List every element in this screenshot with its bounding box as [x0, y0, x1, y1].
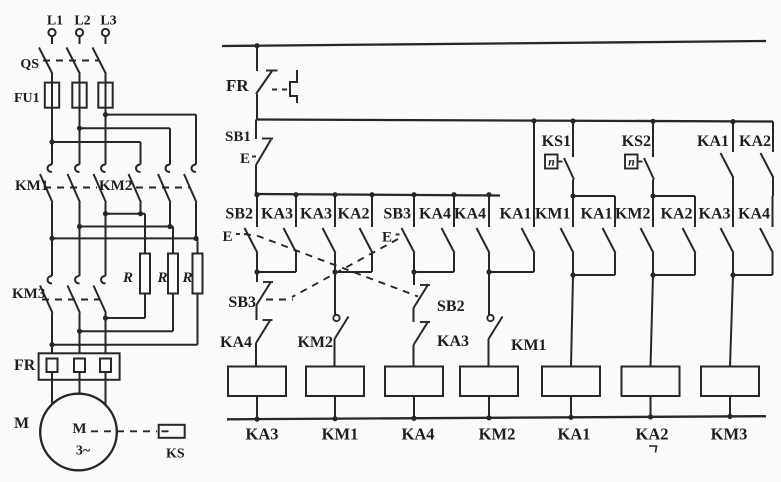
svg-text:KA4: KA4: [402, 425, 435, 444]
svg-text:SB3: SB3: [228, 294, 256, 311]
svg-text:M: M: [14, 415, 29, 432]
svg-text:KA3: KA3: [300, 206, 332, 223]
svg-text:KA4: KA4: [738, 206, 770, 223]
svg-text:E: E: [223, 229, 233, 245]
svg-text:KA1: KA1: [500, 206, 532, 223]
svg-text:KM2: KM2: [615, 206, 651, 223]
svg-text:KA4: KA4: [419, 206, 451, 223]
svg-text:FR: FR: [226, 76, 249, 95]
svg-text:KA4: KA4: [220, 334, 252, 351]
svg-text:KM1: KM1: [15, 178, 48, 194]
svg-text:FR: FR: [14, 357, 36, 374]
svg-text:SB1: SB1: [225, 129, 251, 145]
svg-text:SB2: SB2: [437, 298, 465, 315]
svg-text:KM2: KM2: [99, 178, 132, 194]
svg-text:KM1: KM1: [511, 337, 547, 354]
svg-text:E: E: [382, 230, 392, 246]
svg-text:KM3: KM3: [12, 286, 45, 302]
svg-text:M: M: [72, 421, 86, 437]
svg-text:QS: QS: [20, 57, 39, 72]
svg-text:KA2: KA2: [739, 133, 771, 150]
svg-text:KM3: KM3: [711, 425, 748, 444]
svg-text:KM1: KM1: [322, 425, 359, 444]
svg-text:3~: 3~: [76, 444, 91, 459]
svg-text:KA3: KA3: [699, 206, 731, 223]
svg-text:L3: L3: [100, 14, 116, 29]
svg-text:KS: KS: [166, 447, 185, 462]
svg-text:SB3: SB3: [383, 206, 411, 223]
svg-text:KM2: KM2: [479, 425, 516, 444]
svg-text:n: n: [628, 155, 635, 169]
svg-text:KA3: KA3: [246, 425, 279, 444]
svg-text:L2: L2: [74, 14, 90, 29]
svg-text:SB2: SB2: [225, 206, 253, 223]
svg-text:KA2: KA2: [661, 206, 693, 223]
svg-text:KM1: KM1: [535, 206, 571, 223]
svg-text:KA1: KA1: [697, 133, 729, 150]
svg-text:R: R: [122, 270, 133, 286]
svg-text:KA1: KA1: [581, 206, 613, 223]
svg-text:KA3: KA3: [437, 333, 469, 350]
svg-text:R: R: [156, 270, 167, 286]
svg-text:KM2: KM2: [297, 334, 333, 351]
svg-text:KA2: KA2: [338, 206, 370, 223]
svg-text:KA3: KA3: [261, 206, 293, 223]
svg-text:FU1: FU1: [14, 91, 40, 106]
svg-text:R: R: [181, 270, 192, 286]
svg-text:KA4: KA4: [454, 206, 486, 223]
svg-text:KS2: KS2: [622, 133, 651, 150]
svg-text:E: E: [240, 151, 250, 167]
svg-text:KA1: KA1: [558, 425, 591, 444]
svg-text:n: n: [548, 155, 555, 169]
svg-text:KS1: KS1: [542, 133, 571, 150]
svg-text:KA2: KA2: [636, 425, 669, 444]
svg-text:L1: L1: [47, 14, 63, 29]
